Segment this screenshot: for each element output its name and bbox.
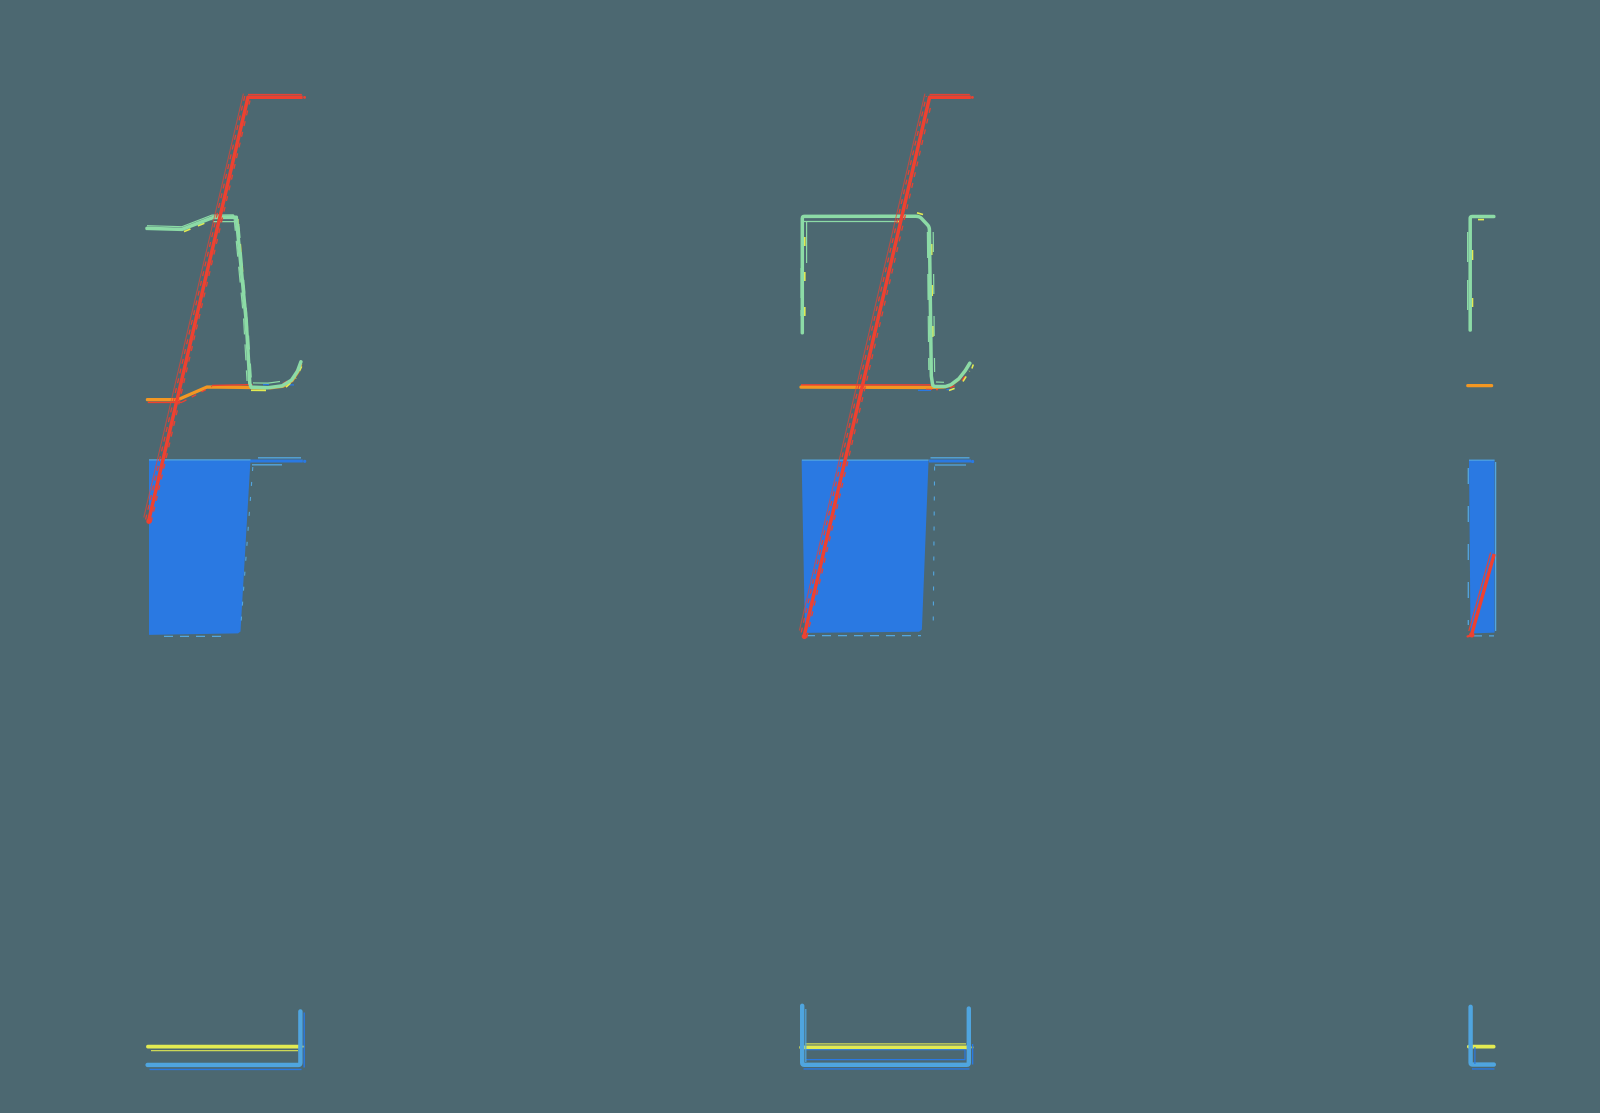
red ramp duplicates (middle)	[799, 94, 969, 638]
bottom yellow line (right)	[1469, 1045, 1494, 1049]
red ramp line (middle)	[802, 96, 974, 639]
red ramp line (right)	[1468, 553, 1495, 638]
bottom sky-blue L line (left)	[148, 1011, 301, 1065]
yellow dash at drop edge (left)	[237, 219, 240, 234]
green thin duplicate (right)	[1467, 232, 1469, 320]
thin red shadow segments (middle)	[801, 373, 968, 390]
green thin duplicates (middle)	[801, 222, 947, 383]
yellow dashes under green (middle)	[805, 213, 974, 391]
thin royal-blue dash under orange (middle)	[918, 389, 952, 392]
red ramp line (left)	[146, 96, 306, 524]
blue top line (left)	[149, 460, 306, 463]
blue filled area (right)	[1469, 460, 1495, 634]
bottom yellow line (left)	[148, 1047, 305, 1051]
blue filled area (middle)	[802, 460, 929, 633]
red ramp duplicates (left)	[144, 94, 302, 523]
green thin duplicates (left)	[147, 215, 280, 383]
thin red shadow segments (left)	[148, 366, 299, 402]
bottom royal-blue thin duplicates (middle)	[804, 1044, 973, 1069]
bottom yellow line (middle)	[801, 1044, 973, 1048]
bottom royal-blue thin duplicates (right)	[1472, 1047, 1495, 1069]
yellow dashes under green (left)	[184, 220, 303, 390]
bottom sky thin duplicate (middle)	[805, 1009, 807, 1062]
yellow dashes under green (right)	[1473, 220, 1487, 316]
blue top line (middle)	[929, 460, 974, 463]
orange line (middle)	[801, 365, 969, 388]
sky-blue accents around fill (right)	[1468, 460, 1495, 636]
blue filled area (left)	[149, 460, 251, 635]
orange line (left)	[147, 365, 300, 400]
thin blue dashes in bundle (left)	[263, 384, 294, 386]
bottom sky-blue U line (middle)	[802, 1006, 969, 1065]
green line (right)	[1470, 217, 1494, 331]
sky-blue accents around fill (middle)	[802, 458, 970, 636]
yellow dash at end of green thin duplicate (middle)	[898, 221, 901, 223]
orange line (right)	[1468, 384, 1492, 387]
green line (left)	[147, 217, 301, 387]
bottom sky-blue line (right)	[1471, 1007, 1494, 1065]
bottom royal-blue thin duplicates (left)	[150, 1013, 305, 1070]
green line (middle)	[802, 216, 970, 386]
sky-blue accents around fill (left)	[149, 458, 301, 637]
